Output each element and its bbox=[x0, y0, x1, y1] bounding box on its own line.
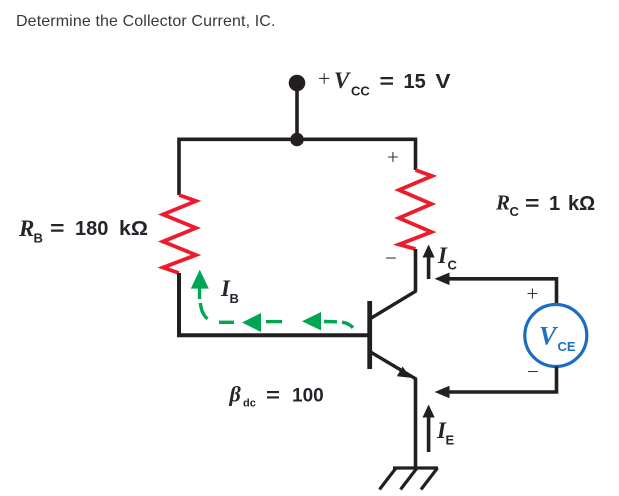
transistor Q1 base bar bbox=[367, 301, 372, 369]
transistor Q1 emitter arrowhead bbox=[397, 367, 411, 378]
ground symbol bbox=[380, 468, 439, 490]
svg-text:+: + bbox=[387, 145, 399, 169]
svg-text:B: B bbox=[34, 231, 43, 246]
current arrow IB (green) bbox=[191, 270, 209, 299]
svg-text:V: V bbox=[436, 71, 452, 93]
wire: RC bottom to collector corner bbox=[414, 249, 418, 292]
wire: VCC terminal to top rail bbox=[295, 83, 299, 140]
VCC terminal dot bbox=[289, 75, 306, 92]
green dashed base-current path bbox=[200, 303, 353, 328]
svg-text:−: − bbox=[527, 360, 539, 384]
svg-text:V: V bbox=[334, 68, 351, 93]
label IB bbox=[220, 276, 239, 306]
svg-text:C: C bbox=[510, 204, 520, 219]
label VCE (inside meter) bbox=[539, 322, 576, 355]
svg-text:CC: CC bbox=[351, 84, 370, 99]
wire: VCE bottom to emitter (with left arrowhead) bbox=[435, 367, 557, 399]
svg-text:R: R bbox=[495, 191, 510, 215]
green arrowhead 1 on dashed path bbox=[242, 313, 261, 332]
svg-text:CE: CE bbox=[558, 339, 576, 354]
svg-text:R: R bbox=[18, 216, 34, 241]
label RC = 1 kOhm bbox=[495, 191, 595, 220]
svg-text:+: + bbox=[318, 66, 330, 91]
wire: top rail from RB top to RC top bbox=[179, 139, 416, 195]
svg-text:kΩ: kΩ bbox=[119, 218, 148, 240]
wire: collector to VCE top (with left arrowhead) bbox=[435, 273, 557, 306]
current arrow IE bbox=[423, 405, 435, 453]
svg-text:=: = bbox=[525, 193, 540, 215]
svg-text:1: 1 bbox=[549, 193, 560, 215]
svg-text:kΩ: kΩ bbox=[568, 193, 595, 215]
resistor RB (180 kOhm) bbox=[163, 195, 196, 273]
svg-text:180: 180 bbox=[75, 218, 108, 240]
transistor Q1 collector lead bbox=[371, 291, 417, 319]
svg-text:β: β bbox=[229, 382, 242, 407]
label IE bbox=[436, 418, 455, 448]
voltmeter VCE circle bbox=[525, 305, 587, 367]
svg-text:100: 100 bbox=[292, 386, 324, 407]
resistor RC (1 kOhm) bbox=[399, 170, 432, 249]
label RB = 180 kOhm bbox=[18, 216, 148, 246]
svg-text:15: 15 bbox=[404, 71, 426, 93]
label beta_dc = 100 bbox=[229, 382, 324, 410]
svg-text:+: + bbox=[527, 282, 539, 306]
svg-text:Determine the Collector Curren: Determine the Collector Current, IC. bbox=[16, 13, 276, 30]
svg-text:E: E bbox=[446, 433, 455, 448]
current arrow IC bbox=[423, 245, 435, 280]
svg-text:=: = bbox=[380, 71, 395, 93]
green arrowhead 2 on dashed path bbox=[302, 312, 321, 330]
wire: RB bottom down and base rail to transistor base bbox=[179, 273, 370, 335]
wire: emitter down to ground bbox=[414, 378, 418, 467]
svg-text:dc: dc bbox=[243, 398, 256, 410]
svg-text:−: − bbox=[385, 246, 397, 270]
svg-text:B: B bbox=[230, 291, 239, 306]
transistor Q1 emitter lead bbox=[371, 352, 417, 379]
junction dot on top rail bbox=[290, 133, 304, 147]
label IC bbox=[437, 243, 458, 273]
svg-text:=: = bbox=[50, 218, 65, 240]
label +VCC = 15 V bbox=[318, 66, 451, 99]
svg-text:I: I bbox=[437, 243, 448, 268]
svg-text:C: C bbox=[448, 258, 458, 273]
svg-text:V: V bbox=[539, 322, 559, 351]
svg-text:=: = bbox=[266, 386, 280, 407]
